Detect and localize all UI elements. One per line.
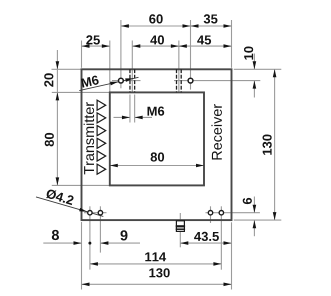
dimension line M6 tap left tail [114, 116, 130, 118]
M6 leader line [79, 77, 138, 90]
dia 4.2 leader line [36, 197, 103, 217]
text 9 [121, 230, 128, 240]
extension line bottom edge right [234, 219, 281, 221]
text 20 rotated [44, 73, 53, 87]
dimension line 20 and 80 vertical [56, 50, 58, 185]
dimension line 130 right [274, 69, 276, 220]
arrowheads dimension 10 [253, 61, 257, 69]
arrowhead dimension 9 [100, 241, 108, 245]
arrowheads dimension 25 [82, 44, 90, 48]
dimension line 6 lower [253, 220, 255, 236]
centerline bottom hole B3 vertical [210, 206, 212, 223]
dimension line 35 [191, 25, 232, 27]
arrowheads dimension 114 [90, 262, 98, 266]
centerline bottom hole B2 vertical [99, 206, 101, 252]
extension line top edge left [52, 68, 82, 70]
centerline top holes horizontal [112, 80, 141, 82]
arrowheads dimension M6 tap [122, 116, 130, 120]
arrowheads dimension 130 right [273, 69, 277, 77]
extension line right edge top [231, 20, 233, 68]
dimension line 80 inner [110, 165, 204, 167]
centerline connector vertical [179, 213, 181, 247]
bottom hole B1 [88, 211, 92, 215]
arrowheads dimension 60 [121, 24, 129, 28]
extension line left edge bottom [81, 222, 83, 290]
bottom hole B4 [219, 211, 223, 215]
extension line right edge bottom [231, 222, 233, 289]
extension line inner left edge top [109, 41, 111, 93]
dimension line 43.5 [180, 242, 231, 244]
bottom hole B2 [98, 211, 102, 215]
text 114 [145, 252, 166, 261]
arrowheads dimension 45 [179, 44, 187, 48]
arrowhead dimension 8 [74, 241, 82, 245]
arrowheads dimension 6 [253, 205, 257, 213]
arrowheads dimension 40 [132, 44, 140, 48]
extension line inner top edge left [52, 91, 110, 93]
inner opening outline [110, 92, 204, 185]
dimension line M6 tap right tail [135, 116, 152, 118]
mounting hole H1 [119, 78, 124, 83]
centerline bottom hole B1 vertical [89, 206, 91, 269]
text Receiver rotated [211, 104, 222, 159]
text 6 rotated [243, 198, 252, 204]
text dia 4.2 slanted [46, 188, 75, 205]
dimension line 45 [179, 45, 232, 47]
M6 leader arrowheads [110, 80, 119, 85]
text 130 bottom [149, 268, 169, 277]
dimension line 60 [121, 25, 191, 27]
tapped hole T1 hidden lines [130, 69, 135, 92]
dia 4.2 leader arrowhead [79, 208, 88, 214]
text M6 middle [148, 107, 165, 116]
connector plug [176, 221, 185, 232]
text Transmitter rotated [84, 102, 95, 174]
dimension line 10 upper [253, 54, 255, 70]
centerline hole H1 vertical [120, 20, 122, 88]
bottom hole B3 [208, 211, 212, 215]
extension line top edge right [234, 68, 281, 70]
centerline hole H2 vertical [190, 20, 192, 90]
centerline tapped hole T1 above [131, 41, 133, 93]
text 130 right rotated [263, 135, 272, 155]
arrowheads dimension 35 [191, 24, 199, 28]
text 80 inner [151, 152, 165, 161]
text 80 rotated [45, 133, 54, 147]
dimension line 8 tail [43, 242, 81, 244]
centerline tapped hole T2 above [178, 41, 180, 93]
text 25 [86, 35, 100, 44]
dimension line 9 tail [100, 242, 140, 244]
tapped hole T2 hidden lines [177, 69, 182, 92]
dimension line 130 bottom [82, 283, 232, 285]
text 60 [149, 14, 163, 23]
terminator dot dimension 8 and 9 [88, 242, 91, 245]
outer frame outline [82, 69, 232, 220]
extension lines tapped hole T1 into opening [129, 95, 131, 123]
text 45 [197, 36, 211, 45]
text 43.5 [194, 232, 219, 241]
extension line inner bottom edge left [52, 184, 110, 186]
text 40 [150, 35, 164, 44]
arrowheads dimension 80 [56, 92, 60, 100]
dimension line 6 upper [253, 197, 255, 213]
arrowheads dimension 80 inner [110, 164, 118, 168]
text 8 [52, 230, 59, 240]
dimension line 25 [82, 45, 110, 47]
dimension line 40 [132, 45, 179, 47]
text M6 slanted [81, 75, 99, 88]
text 35 [204, 14, 218, 23]
arrowhead dimension 20 outside top [56, 61, 60, 69]
mounting hole H2 [188, 78, 193, 83]
dimension line 10 lower [253, 81, 255, 98]
centerline bottom holes horizontal [84, 212, 107, 214]
extension line left edge top [81, 41, 83, 68]
dimension line 114 [90, 263, 222, 265]
text 10 rotated [244, 47, 253, 60]
arrowheads dimension 130 bottom [82, 283, 90, 287]
arrowheads dimension 43.5 [180, 241, 188, 245]
beam triangles [97, 100, 106, 174]
centerline bottom hole B4 vertical [220, 206, 222, 269]
